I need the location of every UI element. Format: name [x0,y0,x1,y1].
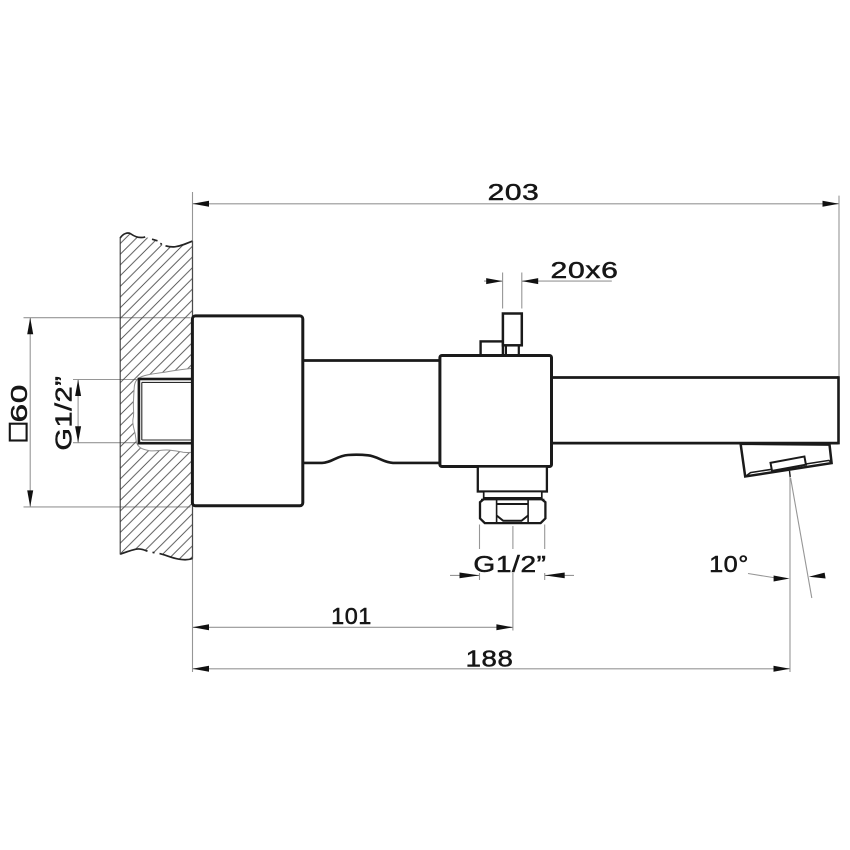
nut front face [497,503,528,505]
wall break edge top [120,233,192,247]
outlet neck under block [478,467,547,492]
extension line spout end (vertical at x=839) [838,196,840,377]
wall left edge [119,238,121,555]
witness line square60 bottom [24,506,191,508]
arrowhead 20x6 left [486,278,502,284]
arrowhead angle left [774,576,790,582]
svg-text:101: 101 [331,603,372,629]
extension line stem left (20x6) [502,273,504,309]
cartridge stem 20x6 [503,314,522,346]
arrowhead 101 left [193,624,210,630]
arrowhead G1/2 bottom right [545,573,565,579]
outlet centre tick [789,471,792,477]
dimension line 203 [193,203,840,205]
wall hatched section [120,233,192,560]
witness line G1/2 bottom right [544,525,546,581]
arm bottom edge with body contour bump [303,455,440,463]
dimension line square60 [29,318,31,507]
angle reference line 10 deg [791,478,812,598]
witness line G1/2 left bottom [73,442,142,444]
arrowhead 188 right [774,666,791,672]
extension line outlet centre (101) [512,526,514,631]
nut top edge [481,499,544,501]
dimension line G1/2 left [77,380,79,443]
extension line spout outlet vertical (angle/188) [789,474,791,672]
arrowhead 20x6 right [522,278,538,284]
outlet groove ring [484,492,542,499]
arrowhead square60 top [27,318,33,335]
arm top edge [303,359,440,362]
arrowhead 101 right [496,624,513,630]
svg-text:10°: 10° [709,552,749,578]
spout tube top edge [552,376,839,379]
arrowhead G1/2 left top [75,380,81,397]
arrowhead 188 left [193,666,210,672]
svg-text:G1/2”: G1/2” [50,376,77,451]
svg-text:20x6: 20x6 [551,257,619,283]
rough wall opening (cloud) [133,368,193,452]
dimension line G1/2 bottom tails [450,574,574,576]
wall face edge above flange [192,241,194,317]
witness line G1/2 left top [73,379,142,381]
wall break edge bottom [120,549,192,560]
arrowhead 203 right [823,201,840,207]
nozzle chamfer line [747,460,832,475]
spout tube bottom edge [552,442,839,445]
leader line 10 deg [748,574,776,579]
svg-text:G1/2”: G1/2” [473,552,546,577]
dimension line 101 [193,626,513,628]
arrowhead G1/2 left bottom [75,426,81,443]
witness line G1/2 bottom left [479,525,481,581]
cartridge stem ledge [481,341,503,356]
svg-text:203: 203 [488,179,540,205]
nut hex flats [497,499,528,523]
dimension line 20x6 tails [484,280,612,282]
outlet nut G1/2 [480,498,545,523]
dimension line 188 [193,668,791,670]
square symbol for 60 [10,424,27,441]
arrowhead angle right [809,573,826,579]
stem lower neck [506,345,519,355]
nut face bottom chamfer [497,516,528,521]
extension line wall face (vertical at x=192.5) [192,192,194,672]
spout tube right end edge [837,376,840,444]
aerator outlet [771,457,806,471]
inlet socket G1/2 in wall [139,379,193,443]
arrowhead G1/2 bottom left [460,573,480,579]
inlet socket inner wall lines [142,382,193,440]
text backing [473,549,547,573]
spout nozzle (tilted 10 deg) [741,444,832,477]
wall flange (escutcheon) [192,316,302,506]
svg-text:188: 188 [466,647,514,672]
arrowhead square60 bottom [27,490,33,507]
valve block body [440,356,552,467]
arrowhead 203 left [193,201,210,207]
svg-text:60: 60 [7,384,33,423]
witness line square60 top [24,317,191,319]
extension line stem right (20x6) [521,273,523,309]
wall face edge below flange [192,506,194,559]
